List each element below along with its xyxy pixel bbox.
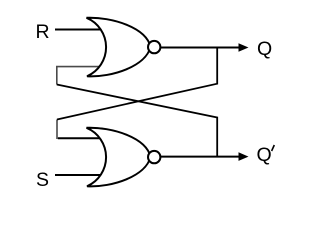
svg-text:S: S [36,169,49,191]
svg-text:Q: Q [257,38,272,60]
svg-text:Q: Q [257,144,272,166]
svg-text:R: R [36,21,50,43]
